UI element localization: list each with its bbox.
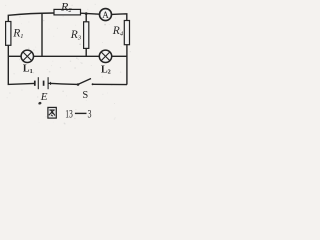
wire vertical branch from top wire to middle wire (41, 13, 43, 56)
resistor R3 (84, 22, 89, 49)
ammeter A (100, 9, 112, 21)
svg-text:L1: L1 (23, 64, 33, 75)
lamp L1 (21, 50, 33, 62)
svg-text:A: A (102, 10, 109, 20)
switch S (77, 79, 94, 86)
node ink smudge below E (38, 102, 41, 105)
wire middle right segment (112, 55, 127, 57)
wire middle center segment (34, 55, 100, 57)
resistor R4 (124, 21, 129, 45)
scan noise backdrop (5, 4, 131, 125)
wire left rail lower segment with bottom-left corner (8, 45, 34, 84)
svg-text:R1: R1 (12, 28, 23, 41)
svg-text:13: 13 (65, 109, 73, 121)
wire R3 bottom connector (85, 48, 87, 56)
wire from switch to bottom-right corner (93, 83, 127, 85)
lamp L2 (99, 50, 111, 62)
svg-text:R3: R3 (70, 29, 82, 42)
battery E plates (35, 77, 48, 89)
svg-text:E: E (40, 91, 48, 103)
wire right rail lower segment (126, 45, 128, 85)
svg-text:R2: R2 (60, 0, 72, 14)
resistor R1 (6, 22, 11, 46)
wire R3 top connector (85, 13, 87, 21)
wire top-left corner segment to R2 (8, 13, 54, 22)
wire middle left segment (8, 55, 21, 57)
wire from battery to switch (48, 83, 78, 84)
resistor R2 (54, 9, 81, 15)
svg-text:3: 3 (88, 109, 92, 121)
svg-text:R4: R4 (112, 25, 124, 38)
svg-text:L2: L2 (101, 64, 111, 75)
svg-text:S: S (82, 90, 88, 101)
node small tick right of battery (50, 82, 52, 85)
node junction on top wire above R3 (85, 12, 88, 15)
wire from ammeter to top-right corner (112, 14, 127, 21)
caption glyph 图 (48, 107, 56, 118)
wire from R2 to ammeter (81, 13, 100, 14)
